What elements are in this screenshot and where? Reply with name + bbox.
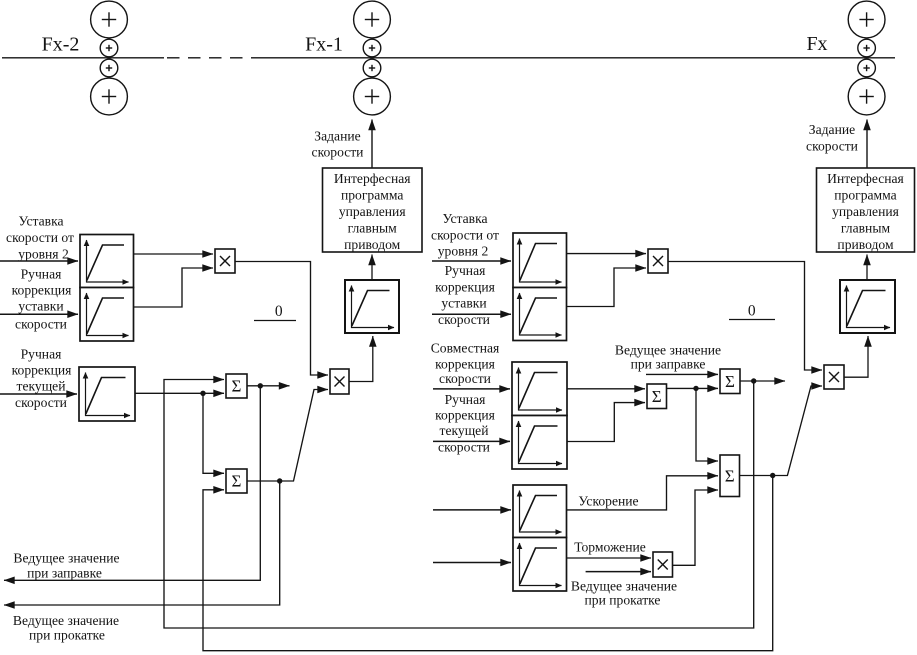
svg-text:Fx: Fx [806,33,827,55]
svg-text:коррекция: коррекция [12,363,72,378]
svg-text:программа: программа [834,188,896,203]
ramp block R1a (setpoint from level 2) [513,233,567,288]
wire zero contact line (right) [729,319,775,321]
svg-text:Совместная: Совместная [431,341,500,356]
svg-text:скорости от: скорости от [431,227,499,242]
roll stand Fx [848,1,885,115]
label manual setpoint correction (left) [12,266,72,331]
wire R1b output to multiplier X3 bottom [567,268,647,307]
svg-text:Ускорение: Ускорение [578,494,638,509]
svg-text:Σ: Σ [652,387,662,406]
ramp block R2a (joint speed correction) [512,362,567,416]
svg-text:главным: главным [348,221,398,236]
wire zero contact line (left) [254,320,296,322]
svg-text:Задание: Задание [314,129,360,144]
wire input: manual current-speed correction to R2b [433,440,510,442]
ramp block B-right (to interface program) [840,280,895,333]
multiplier X3 (right) [648,249,668,273]
wire input: manual current-speed correction to L3 [0,393,77,395]
wire L3 output to summator S1 bottom [135,392,224,394]
svg-text:Ведущее значение: Ведущее значение [13,613,119,628]
svg-text:при прокатке: при прокатке [585,593,661,608]
label leading value at rolling (right) [571,579,677,608]
summator S5 (right) [720,455,740,497]
svg-text:Интерфесная: Интерфесная [827,171,904,186]
wire input: acceleration ramp R3a [433,509,511,511]
node junction on L3 output [200,391,205,396]
ramp block L1b (manual setpoint correction) [80,288,134,342]
svg-text:Задание: Задание [809,122,855,137]
label deceleration [574,540,646,555]
wire input: manual setpoint correction to R1b [432,313,511,315]
svg-text:приводом: приводом [344,237,401,252]
summator S2 (left) [226,469,247,493]
wire S5 output to switch and multiplier X4 bottom [740,386,823,476]
ramp block R3b (deceleration) [513,538,567,592]
wire S1 output to switch arm (left) [247,385,290,387]
wire ramp B-right to U2 [866,255,868,281]
svg-text:при прокатке: при прокатке [29,628,105,643]
ramp block R1b (manual setpoint correction) [513,288,567,341]
multiplier X2 (left) [330,369,349,394]
svg-text:главным: главным [841,221,891,236]
label Fx-1 [305,34,343,56]
svg-text:Ведущее значение: Ведущее значение [13,551,119,566]
wire R3a output (acceleration) to summator S5 middle [567,476,719,510]
ramp block R3a (acceleration) [513,485,567,538]
wire X3 output to multiplier X4 top [668,262,822,371]
svg-text:Ручная: Ручная [21,266,62,281]
node junction on S3 output [693,386,698,391]
node junction on S1 output [258,383,263,388]
svg-text:Ведущее значение: Ведущее значение [615,343,721,358]
label speed setpoint (Fx) [806,122,858,154]
roll stand Fx-2 [91,1,128,115]
svg-text:при заправке: при заправке [27,566,102,581]
wire R1a output to multiplier X3 top [567,253,647,255]
multiplier X1 (left) [215,249,235,273]
wire input: setpoint from level 2 to R1a [432,260,511,262]
wire feedback: S4 junction to summator S1 top (left) [164,380,754,629]
svg-text:Fx-2: Fx-2 [42,34,80,56]
svg-text:Уставка: Уставка [442,211,487,226]
wire L1a output to multiplier X1 top [134,253,214,255]
svg-text:Σ: Σ [232,472,242,491]
svg-text:Σ: Σ [725,466,735,485]
svg-text:Ручная: Ручная [21,347,62,362]
wire leading value at threading to summator S4 top [646,373,718,375]
label zero contact (left switch) [275,303,283,320]
svg-text:при заправке: при заправке [631,356,706,371]
wire S3 output to summator S4 bottom [667,387,719,389]
ramp block B-left (to interface program) [345,280,399,333]
wire S3 junction to summator S5 top [696,388,718,461]
svg-text:текущей: текущей [17,379,66,394]
ramp block R2b (manual current-speed correction) [512,416,567,470]
svg-text:уровня 2: уровня 2 [18,246,69,261]
svg-text:Σ: Σ [725,372,735,391]
svg-text:коррекция: коррекция [435,279,495,294]
label manual current-speed correction (right) [435,392,495,455]
wire R2b output to summator S3 bottom [567,403,645,442]
label joint speed correction (right) [431,341,500,387]
svg-text:0: 0 [748,303,756,320]
node junction on S4 output [751,378,756,383]
svg-text:уставки: уставки [441,296,486,311]
label leading value at rolling (left) [13,613,119,643]
wire input: deceleration ramp R3b [433,562,511,564]
label speed setpoint from level 2 (right) [431,211,499,259]
wire R3b output (deceleration) to multiplier X5 top [567,557,652,559]
summator S3 (right) [647,384,667,409]
label Fx [806,33,827,55]
wire input: joint speed correction to R2a [433,388,510,390]
wire X5 output to summator S5 bottom [673,490,719,565]
svg-text:Торможение: Торможение [574,540,646,555]
svg-text:0: 0 [275,303,283,320]
wire U2 to stand Fx (speed setpoint) [866,120,868,169]
wire S1 junction to leading value at threading (left output) [4,386,260,581]
svg-text:Интерфесная: Интерфесная [334,171,411,186]
label speed setpoint from level 2 (left) [6,214,74,262]
ramp block L1a (setpoint from level 2) [80,235,134,288]
wire R2a output to summator S3 top [567,388,645,390]
svg-text:программа: программа [341,188,403,203]
label leading value at threading (left) [13,551,119,581]
node junction on S2 output [277,478,282,483]
label acceleration [578,494,638,509]
wire X2 output to ramp B-left [349,336,373,382]
node junction on S5 output [770,473,775,478]
svg-text:коррекция: коррекция [435,357,495,372]
label speed setpoint (Fx-1) [312,129,364,160]
svg-text:Fx-1: Fx-1 [305,34,343,56]
label leading value at threading (right) [615,343,721,372]
svg-text:скорости от: скорости от [6,230,74,245]
label manual current-speed correction (left) [12,347,72,411]
wire input: setpoint from level 2 to L1a [0,260,78,262]
svg-text:приводом: приводом [837,237,894,252]
svg-text:скорости: скорости [15,317,67,332]
summator S1 (left) [226,374,247,398]
svg-text:Ведущее значение: Ведущее значение [571,579,677,594]
wire ramp B-left to U1 [371,255,373,281]
ramp block L3 (manual current-speed correction) [79,367,135,421]
svg-text:коррекция: коррекция [12,283,72,298]
wire S1 junction down to S2 top input (left) [203,393,224,473]
multiplier X5 (deceleration by leading value) [653,552,673,577]
wire L1b output to multiplier X1 bottom [134,268,214,307]
wire S2 junction to leading value at rolling (left output) [4,481,280,605]
roll stand Fx-1 [354,1,391,115]
svg-text:уставки: уставки [18,299,63,314]
svg-text:скорости: скорости [15,395,67,410]
wire input: leading value at rolling to multiplier X5 bottom [586,571,651,573]
svg-text:Ручная: Ручная [445,263,486,278]
svg-text:Уставка: Уставка [18,214,63,229]
label manual setpoint correction (right) [435,263,495,327]
svg-text:Ручная: Ручная [445,392,486,407]
svg-text:текущей: текущей [440,423,489,438]
wire U1 to stand Fx-1 (speed setpoint) [371,120,373,169]
label Fx-2 [42,34,80,56]
svg-text:уровня 2: уровня 2 [438,244,489,259]
wire strip pass line [2,57,895,59]
label zero contact (right switch) [748,303,756,320]
block U1 interface program (Fx-1 drive) [323,168,423,252]
multiplier X4 (right) [824,365,844,389]
wire S4 output to switch arm (right) [740,380,785,382]
wire S2 output to switch and multiplier X2 bottom [247,390,328,482]
svg-text:скорости: скорости [312,145,364,160]
svg-text:управления: управления [832,204,899,219]
wire X4 output to ramp B-right [844,336,868,377]
svg-text:коррекция: коррекция [435,408,495,423]
wire X1 output to multiplier X2 top [235,262,328,376]
svg-text:скорости: скорости [806,139,858,154]
wire feedback: S5 junction to summator S2 bottom (left) [203,476,773,651]
svg-text:скорости: скорости [439,371,491,386]
svg-text:управления: управления [339,204,406,219]
svg-text:Σ: Σ [232,377,242,396]
summator S4 (right) [720,369,740,394]
wire input: manual setpoint correction to L1b [0,313,78,315]
block U2 interface program (Fx drive) [817,168,915,252]
